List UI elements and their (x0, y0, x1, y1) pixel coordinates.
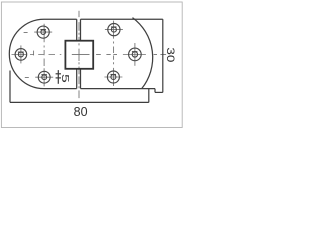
page border (1, 2, 182, 128)
hole R2 outer circle (129, 48, 142, 61)
knuckle square (65, 41, 93, 69)
dim 30 lower step horizontal (155, 91, 163, 93)
hole L1 outer circle (37, 26, 49, 38)
hole L2 inner circle (18, 52, 23, 57)
hole R3 inner chord (111, 74, 117, 76)
hole L3 inner circle (42, 75, 47, 80)
centerline vertical pin axis (dash-dot segments) (78, 11, 80, 98)
centerline hole L2 vertical (20, 45, 22, 63)
hole R2 inner circle (132, 52, 137, 57)
knuckle slot upper right line (80, 19, 82, 41)
svg-text:5: 5 (59, 74, 71, 83)
part outline: left semicircular end R35 (9, 19, 44, 88)
dim 80 right extension line (148, 89, 150, 103)
centerline hole R3 horizontal (104, 76, 122, 78)
dim 30 dimension line (162, 19, 164, 92)
dim 5 dimension line vertical (57, 70, 59, 84)
dim 80 left extension line (9, 71, 11, 103)
hole R3 inner circle (111, 75, 116, 80)
hole R1 outer circle (108, 24, 120, 36)
hole R2 inner chord (132, 51, 138, 53)
svg-text:30: 30 (164, 47, 176, 62)
knuckle slot upper left line (76, 19, 78, 41)
hole L1 inner circle (41, 30, 46, 35)
part outline: bottom edge right of knuckle slot extending to step (81, 88, 156, 90)
centerline stray dash left of L column (33, 51, 35, 56)
centerline hole L3 horizontal (25, 76, 53, 78)
part outline: top edge right of knuckle slot extending to 30-dim line (81, 18, 163, 20)
knuckle slot lower left line (76, 69, 78, 89)
centerline hole R2 vertical (134, 43, 136, 66)
part outline: right end arc R51 (133, 18, 153, 89)
dim 5 tick upper (56, 73, 61, 75)
centerline hole R1 horizontal (105, 29, 123, 31)
part outline: bottom edge left of knuckle slot (44, 88, 77, 90)
centerline hole L1 horizontal (24, 31, 53, 33)
hole L2 outer circle (15, 49, 27, 61)
hole R3 outer circle (107, 71, 119, 83)
dim 80 dimension line (10, 101, 149, 103)
hole L3 outer circle (38, 71, 50, 83)
centerline left hole column (43, 24, 45, 87)
dim 30 lower step vertical (154, 89, 156, 93)
hole L3 inner chord (41, 74, 47, 76)
hole R1 inner circle (111, 27, 116, 32)
part outline: top edge left of knuckle slot (44, 18, 77, 20)
knuckle slot lower right line (80, 69, 82, 89)
svg-text:80: 80 (74, 105, 88, 119)
hole L1 inner chord (40, 29, 46, 31)
centerline right hole column (113, 21, 115, 86)
centerline horizontal main axis (dash-dot segments) (12, 54, 167, 56)
dim 5 tick lower (56, 77, 61, 79)
hole R1 inner chord (111, 26, 117, 28)
hole L2 inner chord (18, 51, 24, 53)
